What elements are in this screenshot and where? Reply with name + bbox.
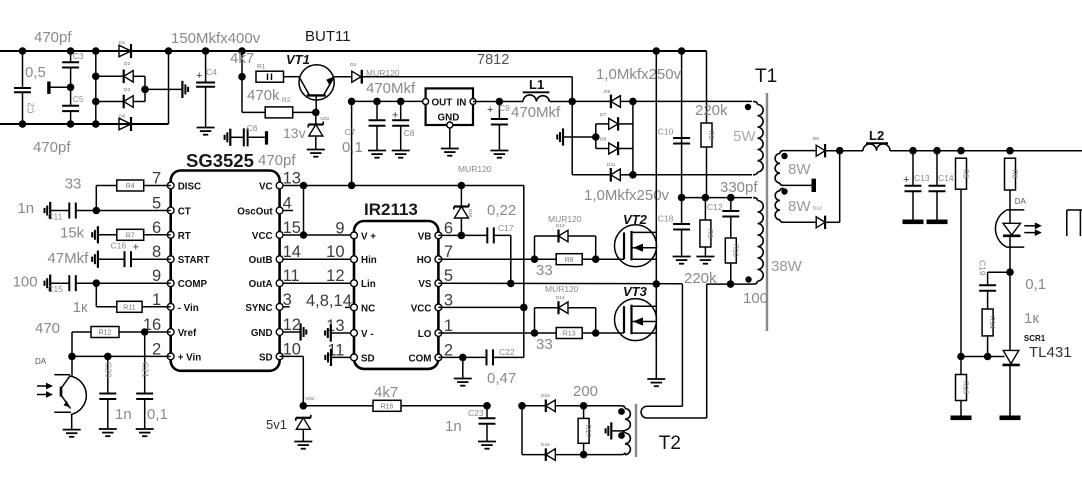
svg-text:R12: R12: [99, 330, 112, 337]
svg-text:C7: C7: [345, 127, 356, 137]
svg-text:DA: DA: [1015, 197, 1027, 206]
svg-text:330pf: 330pf: [720, 179, 758, 196]
svg-text:LO: LO: [418, 329, 432, 340]
svg-text:R11: R11: [123, 304, 135, 311]
svg-text:VD1: VD1: [320, 116, 330, 122]
svg-text:+: +: [392, 110, 398, 122]
svg-text:+: +: [133, 241, 139, 253]
svg-text:DISC: DISC: [178, 182, 201, 193]
svg-text:470pf: 470pf: [258, 152, 296, 169]
svg-text:SG3525: SG3525: [186, 150, 254, 171]
svg-text:1к: 1к: [73, 299, 88, 316]
svg-text:D10: D10: [468, 209, 473, 218]
svg-text:5W: 5W: [733, 128, 756, 145]
svg-text:C13: C13: [914, 173, 930, 183]
svg-text:C12: C12: [707, 202, 723, 212]
svg-text:R9: R9: [706, 229, 713, 238]
svg-text:R7: R7: [126, 232, 135, 239]
svg-text:HO: HO: [417, 255, 432, 266]
svg-text:100: 100: [743, 290, 768, 307]
svg-text:33: 33: [65, 176, 82, 193]
svg-text:BUT11: BUT11: [305, 28, 351, 45]
svg-text:1n: 1n: [445, 418, 462, 435]
svg-text:13v: 13v: [283, 125, 306, 141]
svg-text:OutA: OutA: [249, 279, 273, 290]
svg-text:+: +: [903, 174, 909, 186]
svg-text:L1: L1: [529, 77, 544, 92]
svg-text:C21: C21: [141, 362, 151, 378]
svg-text:C2: C2: [26, 102, 36, 113]
svg-text:D8: D8: [600, 137, 606, 143]
svg-text:4k7: 4k7: [230, 50, 254, 67]
svg-text:R10: R10: [731, 244, 738, 257]
svg-text:C10: C10: [658, 127, 674, 137]
svg-text:R4: R4: [126, 183, 135, 190]
svg-text:33: 33: [536, 336, 553, 353]
svg-text:D1: D1: [119, 40, 125, 46]
svg-text:8W: 8W: [788, 198, 811, 215]
svg-text:DA: DA: [35, 357, 47, 366]
svg-text:T1: T1: [755, 66, 777, 87]
svg-text:15k: 15k: [60, 225, 85, 242]
svg-text:0,1: 0,1: [342, 139, 363, 156]
svg-text:R5: R5: [962, 169, 969, 178]
svg-text:R2: R2: [282, 97, 291, 104]
svg-text:VD2: VD2: [305, 396, 315, 402]
svg-text:+: +: [487, 104, 493, 116]
svg-text:VT3: VT3: [623, 284, 648, 299]
svg-text:C19: C19: [978, 260, 988, 276]
svg-text:470k: 470k: [247, 87, 280, 104]
svg-text:0,5: 0,5: [25, 64, 46, 81]
svg-text:1n: 1n: [115, 406, 132, 423]
svg-text:C20: C20: [104, 362, 114, 378]
svg-text:7812: 7812: [477, 52, 509, 68]
svg-text:470Mkf: 470Mkf: [511, 104, 561, 121]
svg-text:Vref: Vref: [178, 328, 197, 339]
svg-text:TL431: TL431: [1029, 344, 1072, 361]
svg-text:D9: D9: [813, 136, 819, 142]
svg-text:D5: D5: [604, 89, 610, 95]
svg-text:C23: C23: [468, 408, 484, 418]
svg-text:220k: 220k: [695, 102, 728, 119]
svg-text:470pf: 470pf: [34, 29, 72, 46]
svg-text:IR2113: IR2113: [364, 200, 418, 219]
svg-text:5v1: 5v1: [266, 417, 287, 432]
svg-text:C18: C18: [658, 214, 674, 224]
svg-text:C5: C5: [73, 94, 84, 104]
svg-text:R17: R17: [584, 424, 591, 437]
svg-text:COMP: COMP: [178, 279, 208, 290]
svg-text:D12: D12: [813, 206, 822, 212]
svg-text:D7: D7: [600, 112, 606, 118]
svg-text:L2: L2: [869, 128, 884, 143]
svg-text:C14: C14: [938, 173, 954, 183]
svg-text:MUR120: MUR120: [548, 214, 582, 224]
svg-text:470pf: 470pf: [33, 139, 71, 156]
svg-text:VB: VB: [418, 231, 432, 242]
svg-text:MUR120: MUR120: [458, 164, 492, 174]
svg-text:4,8,14: 4,8,14: [306, 292, 352, 310]
svg-text:0,47: 0,47: [487, 370, 516, 387]
svg-text:R3: R3: [707, 131, 714, 140]
svg-text:C17: C17: [498, 223, 514, 233]
svg-text:470Mkf: 470Mkf: [366, 80, 416, 97]
svg-text:MUR120: MUR120: [545, 284, 579, 294]
svg-text:C6: C6: [247, 123, 258, 133]
svg-text:OscOut: OscOut: [237, 207, 273, 218]
svg-text:R1: R1: [257, 64, 266, 71]
svg-text:VC: VC: [259, 182, 273, 193]
svg-text:C4: C4: [206, 67, 217, 77]
svg-text:200: 200: [573, 383, 598, 400]
svg-text:C8: C8: [404, 128, 415, 138]
svg-text:- Vin: - Vin: [178, 303, 199, 314]
svg-text:D2: D2: [124, 61, 130, 67]
svg-text:C9: C9: [499, 103, 510, 113]
svg-text:38W: 38W: [771, 258, 803, 275]
svg-text:D3: D3: [124, 87, 130, 93]
svg-text:V -: V -: [361, 329, 374, 340]
svg-text:C22: C22: [499, 347, 515, 357]
svg-text:VT1: VT1: [286, 52, 310, 67]
svg-text:0,1: 0,1: [147, 406, 168, 423]
svg-text:R13: R13: [563, 331, 576, 338]
svg-text:D4: D4: [350, 62, 356, 68]
svg-text:+ Vin: + Vin: [178, 352, 202, 363]
svg-text:C11: C11: [47, 212, 62, 222]
svg-text:8W: 8W: [788, 161, 811, 178]
svg-text:47Mkf: 47Mkf: [47, 250, 89, 267]
svg-text:0,22: 0,22: [487, 202, 516, 219]
svg-text:R6: R6: [1011, 170, 1018, 179]
svg-text:RT: RT: [178, 231, 191, 242]
svg-text:150Mkfx400v: 150Mkfx400v: [171, 30, 261, 47]
svg-text:VCC: VCC: [411, 303, 432, 314]
svg-text:VCC: VCC: [252, 231, 273, 242]
svg-text:C3: C3: [73, 51, 84, 61]
svg-text:V +: V +: [361, 231, 376, 242]
svg-text:SD: SD: [259, 352, 273, 363]
svg-text:IN: IN: [457, 98, 467, 109]
svg-text:4k7: 4k7: [374, 384, 398, 401]
svg-text:1,0Mkfx250v: 1,0Mkfx250v: [596, 66, 682, 83]
svg-text:SYNC: SYNC: [245, 303, 272, 314]
svg-text:Hin: Hin: [361, 255, 377, 266]
svg-text:GND: GND: [251, 328, 273, 339]
svg-text:R15: R15: [962, 381, 969, 394]
svg-text:C15: C15: [47, 284, 63, 294]
svg-text:1к: 1к: [1024, 310, 1039, 327]
svg-text:T2: T2: [659, 433, 681, 454]
svg-text:COM: COM: [409, 353, 432, 364]
svg-text:D6: D6: [119, 114, 125, 120]
svg-text:15: 15: [283, 219, 301, 237]
svg-text:0,1: 0,1: [1025, 276, 1046, 293]
svg-text:470: 470: [35, 320, 60, 337]
svg-text:OUT: OUT: [432, 98, 453, 109]
svg-text:START: START: [178, 255, 210, 266]
svg-text:VS: VS: [418, 279, 432, 290]
svg-text:D11: D11: [607, 162, 616, 168]
svg-text:NC: NC: [361, 303, 375, 314]
svg-text:R16: R16: [381, 403, 394, 410]
svg-text:D13: D13: [556, 223, 565, 228]
svg-text:100: 100: [13, 274, 38, 291]
svg-text:+: +: [196, 70, 202, 82]
svg-text:OutB: OutB: [249, 255, 273, 266]
svg-text:D16: D16: [541, 442, 550, 448]
svg-text:33: 33: [536, 262, 553, 279]
svg-text:SD: SD: [361, 353, 375, 364]
svg-text:CT: CT: [178, 207, 191, 218]
svg-text:D15: D15: [541, 393, 550, 399]
svg-text:1n: 1n: [17, 200, 34, 217]
svg-text:Lin: Lin: [361, 279, 376, 290]
svg-text:SCR1: SCR1: [1024, 334, 1046, 343]
svg-text:R14: R14: [988, 316, 995, 329]
svg-text:VT2: VT2: [623, 212, 648, 227]
svg-text:D14: D14: [556, 295, 565, 300]
svg-text:R8: R8: [565, 257, 574, 264]
svg-text:C16: C16: [111, 241, 127, 251]
